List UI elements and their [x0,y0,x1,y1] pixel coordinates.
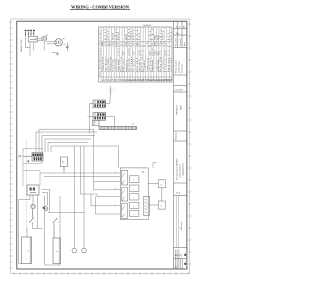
svg-text:Timer unit: Timer unit [146,58,149,72]
svg-text:5rpm: 5rpm [112,41,115,47]
connector block X3 [93,113,106,121]
svg-text:21: 21 [168,50,170,56]
relay coil c5 [130,210,139,216]
relay cluster box K21 [120,168,148,220]
sheet title [70,4,130,9]
svg-text:6.3A: 6.3A [146,40,149,46]
svg-text:c: c [133,180,134,182]
wire mains down [26,36,58,56]
frame tick marks left [9,22,12,268]
svg-text:Cool fan: Cool fan [170,58,172,72]
thermostat TB1 [44,207,48,211]
svg-text:WIRING - COMBI VERSION: WIRING - COMBI VERSION [71,4,130,9]
wire ring terminal 1 [72,247,77,253]
svg-text:Schematic: Schematic [181,64,184,73]
connector block X2 [93,100,106,108]
terminal strip X1 [93,120,137,129]
connector pin strip right of cluster [144,196,150,215]
svg-text:HR20: HR20 [163,30,165,40]
wire TB to plug [38,39,42,41]
svg-text:0231: 0231 [128,48,130,56]
svg-text:Wiring diagram: Wiring diagram [175,60,178,73]
svg-text:Power board: Power board [151,60,154,72]
svg-text:04/92: 04/92 [181,105,183,110]
frame tick marks bottom [14,272,188,275]
wire SW-A down [19,195,38,264]
fan motor M1 [55,39,65,47]
svg-text:TT motor: TT motor [143,60,146,72]
svg-text:BE10: BE10 [118,31,120,40]
svg-text:Relay 16A: Relay 16A [159,56,162,72]
plug P1 [42,35,48,42]
wire X3 right up [106,97,115,127]
svg-text:Contactor: Contactor [162,57,165,72]
svg-text:Suppressor: Suppressor [101,57,104,72]
supply pin N [28,30,30,36]
supply pin L [25,30,27,36]
svg-text:21: 21 [142,50,144,56]
wire X2 left [90,104,94,134]
svg-text:Cavity lamp: Cavity lamp [156,59,159,72]
heater element EA [22,237,32,264]
svg-text:20A: 20A [133,40,136,46]
svg-text:Grill elem: Grill elem [114,59,117,72]
svg-text:Thermostat: Thermostat [112,59,115,72]
svg-text:schema elettrico: schema elettrico [179,164,182,178]
svg-text:cablaggio forno: cablaggio forno [182,163,185,176]
svg-text:10A: 10A [156,40,159,46]
drawing border heavy [17,21,187,269]
svg-text:16A: 16A [106,40,109,46]
outer frame light line with ticks [11,19,190,274]
relay coil c3 [130,194,139,200]
title block texts (rotated) [174,26,186,268]
title block strip [174,21,187,269]
connector CB [43,207,45,209]
svg-text:Door sw 2: Door sw 2 [138,59,141,72]
aux box d1 [148,180,165,205]
svg-text:A4: A4 [174,266,177,268]
dashed boundary [26,140,28,232]
relay coil c2 [130,185,139,192]
svg-text:8810.177: 8810.177 [175,255,182,257]
wire plug to motor [47,41,55,43]
svg-text:Ap: Ap [183,26,185,29]
svg-text:c: c [133,206,134,208]
arrow terminal left of A1 [19,155,32,157]
heater element EB [53,238,61,264]
relay coil c4 [130,202,139,208]
frame tick marks right [188,24,191,264]
switch box SW-A [27,185,39,195]
thermal switch contact A [29,218,36,224]
svg-text:Rev: Rev [176,33,179,35]
terminal box TB [28,36,37,42]
contact switch S2 [122,188,128,201]
svg-text:Lower elem: Lower elem [117,60,120,72]
svg-text:c: c [133,189,134,191]
svg-text:1: 1 [115,172,116,174]
supply pin 3 [30,30,32,36]
cluster top stub wire [153,163,157,168]
parts list table (rotated) [99,25,173,82]
svg-text:MAINS 230V: MAINS 230V [20,39,23,52]
svg-text:LEGEND: LEGEND [143,25,152,27]
svg-text:HV transf: HV transf [127,59,130,72]
capacitor C1 [64,43,69,51]
relay coil c1 [130,176,139,183]
contact switch S3 [122,204,128,219]
svg-text:Checked: Checked [180,39,182,46]
svg-text:c: c [133,197,134,199]
svg-text:Rev. Date: Rev. Date [175,38,178,46]
earth symbol [56,54,59,56]
svg-text:Door sw 1: Door sw 1 [135,57,138,72]
svg-text:Ctrl board: Ctrl board [148,58,151,72]
long bus wires [40,129,120,246]
thermostat TA [31,204,35,217]
svg-text:Cod. 8810: Cod. 8810 [175,90,183,92]
svg-text:Drawing n.: Drawing n. [175,130,178,140]
svg-text:Magnetron: Magnetron [125,60,128,72]
heater circuit B wires top [42,190,60,266]
svg-text:Combi version: Combi version [178,61,181,73]
heater circuit A enclosure [23,164,40,187]
supply pin PE [33,30,35,36]
svg-text:Appr.: Appr. [183,41,186,46]
wire stub below table [109,86,115,97]
wire X3 left [88,116,94,118]
svg-text:CF9: CF9 [170,31,172,40]
svg-text:Denominazione VIB 8810: Denominazione VIB 8810 [177,159,179,180]
svg-text:VIB sarto: VIB sarto [180,222,183,230]
svg-text:3: 3 [115,188,116,190]
thermal switch contact B [53,218,60,238]
svg-text:DS2: DS2 [139,32,141,40]
svg-text:VIB 8810 S: VIB 8810 S [177,105,179,115]
svg-text:Earth stud: Earth stud [167,58,170,72]
svg-text:Monitor sw: Monitor sw [141,56,144,72]
relay box b1 [61,157,68,173]
svg-text:11: 11 [93,124,95,126]
connector block A1 [23,149,43,164]
wire into element A [27,224,43,238]
nested loop wires [36,129,97,152]
aux box d2 [158,201,165,209]
svg-text:c: c [133,214,134,216]
mains supply label (rotated) [20,39,23,52]
wire ring terminal 2 [82,247,87,253]
svg-text:Selector sw: Selector sw [109,56,112,72]
contact switch S1 [122,171,128,186]
wire labels left of cluster [115,172,116,207]
svg-text:Scala: Scala [176,193,180,195]
svg-text:775: 775 [160,50,162,56]
svg-text:Pos Denominazione descrizion: Pos Denominazione descrizione [99,29,102,76]
svg-text:5: 5 [115,204,116,206]
svg-text:Fan motor: Fan motor [104,57,107,72]
